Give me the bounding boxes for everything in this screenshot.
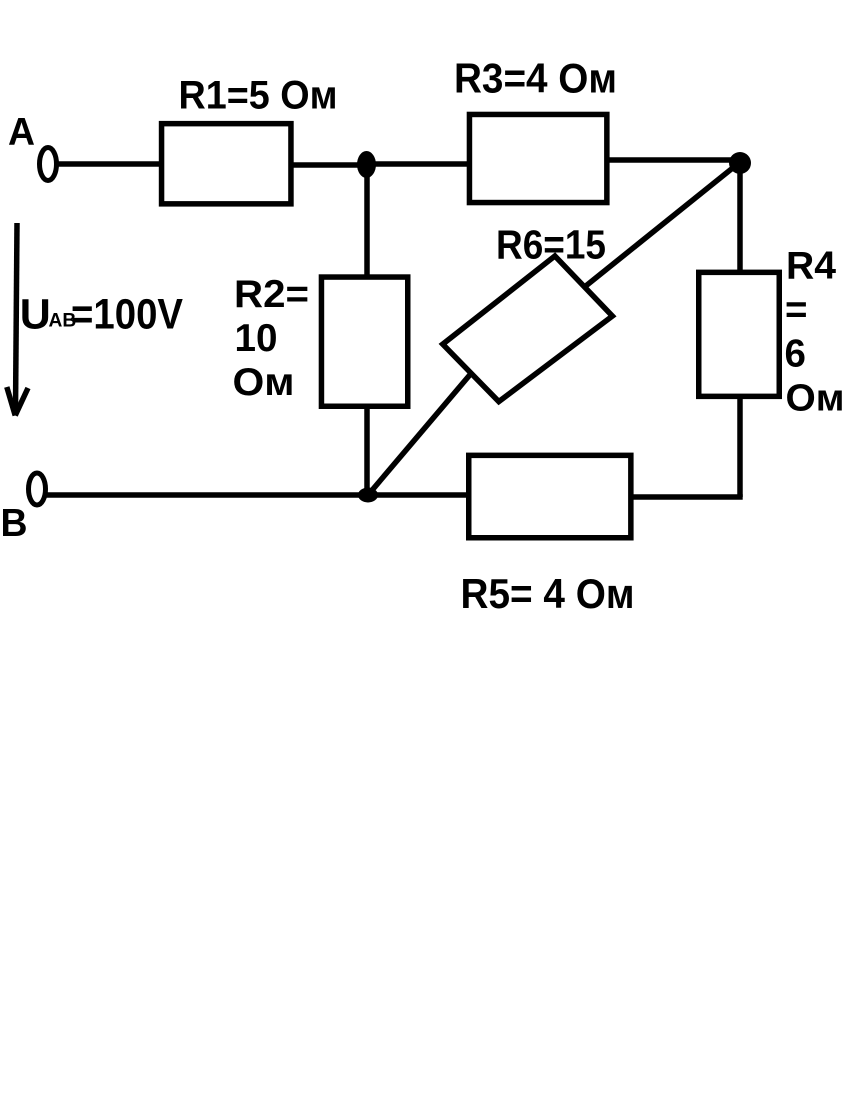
terminal B bbox=[29, 473, 46, 505]
wire bbox=[585, 165, 738, 288]
node junction 1 bbox=[357, 151, 376, 178]
wire bbox=[364, 164, 370, 277]
svg-text:U: U bbox=[20, 291, 51, 339]
wire bbox=[364, 407, 370, 496]
wire bbox=[608, 157, 740, 163]
wire bbox=[737, 161, 743, 273]
resistor R2 bbox=[321, 277, 407, 406]
wire bbox=[366, 161, 470, 167]
wire bbox=[292, 162, 368, 168]
svg-text:B: B bbox=[1, 502, 28, 545]
svg-text:R4: R4 bbox=[786, 244, 837, 287]
wire bbox=[631, 494, 743, 500]
resistor R5 bbox=[469, 455, 631, 537]
resistor R3 bbox=[469, 114, 606, 202]
wire bbox=[737, 397, 743, 497]
svg-text:10: 10 bbox=[235, 317, 278, 360]
resistor R4 bbox=[699, 272, 780, 396]
resistor R6 bbox=[443, 256, 613, 402]
node junction 2 bbox=[729, 152, 751, 174]
wire bbox=[368, 374, 471, 496]
svg-text:R5= 4 Ом: R5= 4 Ом bbox=[461, 570, 635, 617]
svg-text:Ом: Ом bbox=[233, 361, 295, 404]
svg-text:R1=5 Ом: R1=5 Ом bbox=[179, 74, 338, 118]
node junction 3 bbox=[358, 488, 378, 503]
voltage arrow bbox=[16, 223, 18, 410]
resistor R1 bbox=[162, 124, 291, 204]
svg-text:A: A bbox=[8, 111, 35, 154]
svg-text:R6=15: R6=15 bbox=[496, 222, 606, 268]
svg-text:=100V: =100V bbox=[71, 291, 183, 339]
svg-text:R2=: R2= bbox=[234, 273, 309, 316]
svg-text:Ом: Ом bbox=[786, 377, 845, 419]
wire bbox=[56, 161, 162, 167]
terminal A bbox=[40, 148, 57, 181]
svg-text:=: = bbox=[785, 289, 807, 332]
svg-text:R3=4 Ом: R3=4 Ом bbox=[454, 55, 617, 102]
svg-text:6: 6 bbox=[785, 333, 806, 376]
wire bbox=[46, 492, 470, 498]
